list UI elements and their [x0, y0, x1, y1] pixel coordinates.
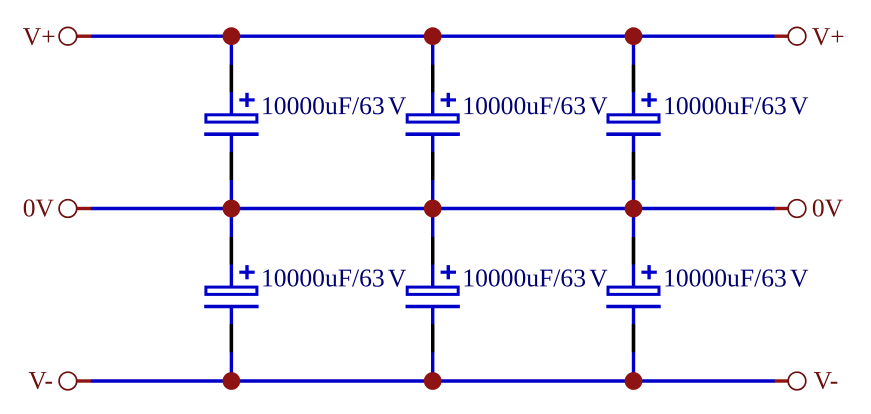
wire V- rail (blue)	[91, 379, 776, 382]
svg-text:10000uF/63V: 10000uF/63V	[462, 91, 608, 120]
svg-text:0V: 0V	[812, 193, 844, 222]
node V- junction 3	[625, 372, 643, 390]
wire V+ right terminal stub	[775, 35, 789, 38]
C3 pin 1 (black lead segment)	[632, 65, 635, 93]
wire C3 negative lead (from plate to rail)	[632, 134, 635, 208]
C2 plus polarity mark	[441, 93, 456, 107]
node V- junction 1	[223, 372, 241, 390]
C5 pin 2 (black lead segment)	[431, 324, 434, 352]
wire V- left terminal stub	[77, 379, 91, 382]
wire C1 negative lead (from plate to rail)	[230, 134, 233, 208]
svg-text:V+: V+	[23, 22, 56, 51]
node 0V junction 2	[424, 200, 442, 218]
terminal V+ left	[59, 27, 77, 45]
node V+ junction 1	[223, 27, 241, 45]
C2 pin 1 (black lead segment)	[431, 65, 434, 93]
svg-text:10000uF/63V: 10000uF/63V	[663, 263, 809, 292]
svg-text:V+: V+	[812, 22, 845, 51]
wire 0V right terminal stub	[775, 207, 789, 210]
C3 pin 2 (black lead segment)	[632, 152, 635, 180]
wire C6 positive lead (from rail to plate)	[632, 209, 635, 288]
wire C6 negative lead (from plate to rail)	[632, 307, 635, 382]
svg-text:10000uF/63V: 10000uF/63V	[663, 91, 809, 120]
capacitor C2 negative plate (solid)	[406, 132, 460, 136]
C4 pin 2 (black lead segment)	[230, 324, 233, 352]
node V+ junction 3	[625, 27, 643, 45]
C5 pin 1 (black lead segment)	[431, 237, 434, 265]
terminal V- left	[59, 372, 77, 390]
C4 pin 1 (black lead segment)	[230, 237, 233, 265]
capacitor C3 negative plate (solid)	[606, 132, 660, 136]
wire C4 negative lead (from plate to rail)	[230, 307, 233, 382]
capacitor C5 negative plate (solid)	[406, 305, 460, 309]
capacitor C4 positive plate (hollow)	[206, 287, 257, 294]
terminal V+ right	[788, 27, 806, 45]
wire V+ left terminal stub	[77, 35, 91, 38]
capacitor C3 positive plate (hollow)	[608, 115, 659, 122]
wire C4 positive lead (from rail to plate)	[230, 209, 233, 288]
terminal 0V right	[788, 200, 806, 218]
svg-text:10000uF/63V: 10000uF/63V	[261, 263, 407, 292]
wire C3 positive lead (from rail to plate)	[632, 36, 635, 115]
C4 plus polarity mark	[239, 265, 254, 279]
C1 pin 2 (black lead segment)	[230, 152, 233, 180]
wire 0V rail (blue)	[91, 207, 776, 210]
capacitor C6 positive plate (hollow)	[608, 287, 659, 294]
node 0V junction 1	[223, 200, 241, 218]
svg-text:10000uF/63V: 10000uF/63V	[462, 263, 608, 292]
wire 0V left terminal stub	[77, 207, 91, 210]
wire C2 negative lead (from plate to rail)	[431, 134, 434, 208]
wire V- right terminal stub	[775, 379, 789, 382]
C6 pin 2 (black lead segment)	[632, 324, 635, 352]
wire C5 positive lead (from rail to plate)	[431, 209, 434, 288]
capacitor C1 negative plate (solid)	[204, 132, 258, 136]
C3 plus polarity mark	[641, 93, 656, 107]
capacitor C1 positive plate (hollow)	[206, 115, 257, 122]
svg-text:10000uF/63V: 10000uF/63V	[261, 91, 407, 120]
node V- junction 2	[424, 372, 442, 390]
C2 pin 2 (black lead segment)	[431, 152, 434, 180]
C1 pin 1 (black lead segment)	[230, 65, 233, 93]
terminal 0V left	[59, 200, 77, 218]
C6 plus polarity mark	[641, 265, 656, 279]
wire C5 negative lead (from plate to rail)	[431, 307, 434, 382]
node V+ junction 2	[424, 27, 442, 45]
terminal V- right	[788, 372, 806, 390]
capacitor C4 negative plate (solid)	[204, 305, 258, 309]
capacitor C5 positive plate (hollow)	[407, 287, 458, 294]
C5 plus polarity mark	[441, 265, 456, 279]
wire C1 positive lead (from rail to plate)	[230, 36, 233, 115]
C1 plus polarity mark	[239, 93, 254, 107]
C6 pin 1 (black lead segment)	[632, 237, 635, 265]
wire V+ rail (blue)	[91, 35, 776, 38]
node 0V junction 3	[625, 200, 643, 218]
capacitor C6 negative plate (solid)	[606, 305, 660, 309]
svg-text:0V: 0V	[23, 193, 55, 222]
wire C2 positive lead (from rail to plate)	[431, 36, 434, 115]
svg-text:V-: V-	[814, 366, 839, 395]
capacitor C2 positive plate (hollow)	[407, 115, 458, 122]
svg-text:V-: V-	[28, 366, 53, 395]
